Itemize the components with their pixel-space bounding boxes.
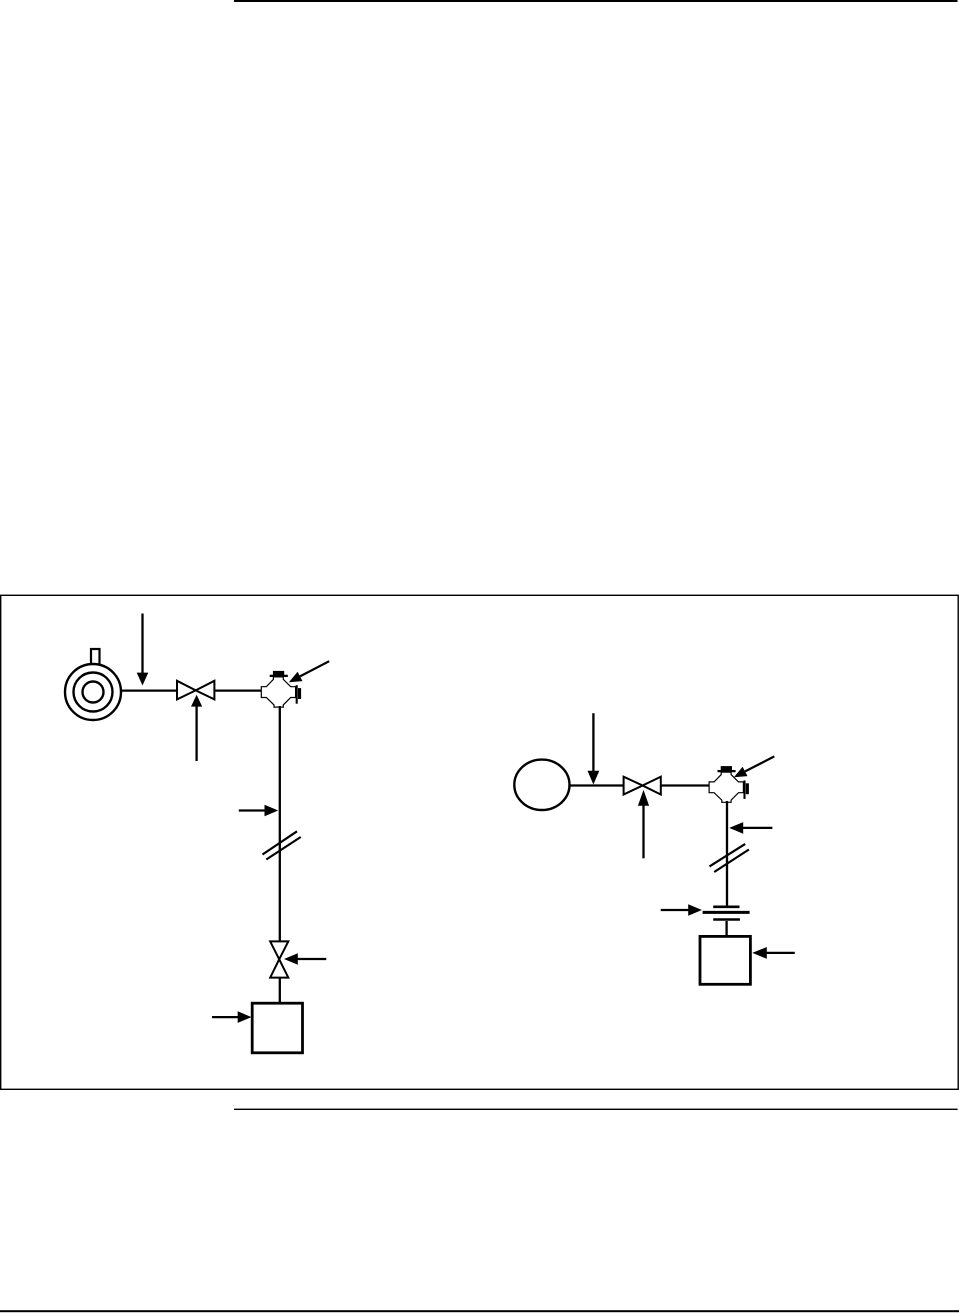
callout arrow to filter (right-pointing) xyxy=(661,904,702,916)
wire pipe cylinder to valve V1 xyxy=(121,689,178,691)
callout arrow to valve V1 (up) xyxy=(191,695,202,761)
callout arrow to box BX1 (right-pointing) xyxy=(212,1011,251,1023)
gas cylinder outer circle xyxy=(65,664,121,720)
QC2 right cap xyxy=(745,780,749,799)
quick-connect fitting QC2 body xyxy=(709,772,743,802)
callout arrow to box BX2 (left-pointing) xyxy=(752,947,795,959)
wire pipe valve V3 to quick-connect QC2 xyxy=(661,784,710,786)
wire pipe circle to valve V3 xyxy=(570,784,625,786)
gas cylinder inner circle xyxy=(83,682,104,703)
source circle C2 xyxy=(514,760,569,810)
filter element top plate xyxy=(713,905,739,908)
page footer rule xyxy=(0,1310,959,1312)
callout arrow to supply line (down, right diagram) xyxy=(588,713,600,784)
instrument box BX1 xyxy=(252,1003,302,1053)
wire vertical pipe below QC2 xyxy=(726,801,728,907)
QC2 top cap xyxy=(718,766,736,771)
callout arrow to supply line (down) xyxy=(137,614,149,686)
caption rule below figure xyxy=(234,1109,958,1110)
gas cylinder stem xyxy=(91,649,100,665)
wire vertical pipe below QC1 xyxy=(279,706,281,942)
callout arrow to QC1 (diagonal) xyxy=(289,661,329,682)
instrument box BX2 xyxy=(700,936,750,984)
callout arrow to vertical pipe (left-pointing, right diagram) xyxy=(729,822,772,834)
shutoff valve V1 xyxy=(177,681,214,700)
line break symbol B2 xyxy=(710,844,749,872)
line break symbol B1 xyxy=(263,831,301,859)
callout arrow to valve V3 (up) xyxy=(638,790,649,858)
wire pipe valve V1 to quick-connect QC1 xyxy=(214,689,262,691)
wire pipe valve V2 to instrument box xyxy=(279,978,281,1004)
callout arrow to vertical pipe (right-pointing) xyxy=(239,805,278,817)
wire filter to box BX2 xyxy=(725,921,727,937)
shutoff valve V3 xyxy=(624,777,661,795)
filter element middle plate xyxy=(703,911,750,914)
gas cylinder middle circle xyxy=(74,673,113,712)
QC1 top cap xyxy=(270,671,288,676)
callout arrow to QC2 (diagonal) xyxy=(734,756,774,777)
QC1 right cap xyxy=(297,685,301,704)
top header rule xyxy=(234,0,958,2)
figure border frame xyxy=(1,595,959,1089)
quick-connect fitting QC1 body xyxy=(261,677,295,707)
metering valve V2 xyxy=(270,941,288,977)
callout arrow to valve V2 (left-pointing) xyxy=(284,953,326,965)
filter element bottom plate xyxy=(713,918,740,921)
